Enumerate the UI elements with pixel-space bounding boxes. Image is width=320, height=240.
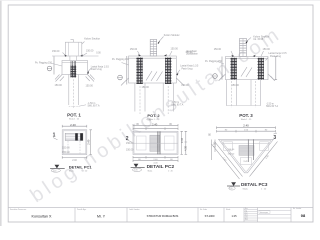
left dim vertical P3 bbox=[221, 57, 223, 80]
column top tick bbox=[71, 40, 74, 43]
slant dims PC3 left bbox=[212, 142, 243, 180]
svg-text:150.00: 150.00 bbox=[232, 84, 240, 87]
piles P3 bbox=[226, 80, 228, 106]
leader lantai kerja P3 bbox=[266, 58, 269, 61]
texts POT2 bbox=[112, 34, 199, 121]
svg-text:Pasir Urug: Pasir Urug bbox=[182, 67, 194, 70]
top dims PC2 bbox=[133, 124, 178, 126]
inner hatch diagonals P3 bbox=[241, 67, 252, 77]
svg-text:150.00: 150.00 bbox=[214, 48, 222, 51]
svg-text:1:25: 1:25 bbox=[231, 214, 237, 218]
svg-text:2: 2 bbox=[126, 136, 129, 142]
pile bottom P1 bbox=[69, 105, 79, 107]
base arrows P2 bbox=[138, 54, 167, 56]
svg-text:4.00: 4.00 bbox=[185, 146, 188, 151]
section symbol PC2 bbox=[131, 164, 145, 172]
svg-text:Lantai Kerja 1:3:5: Lantai Kerja 1:3:5 bbox=[91, 65, 110, 68]
svg-text:Kolom Struktur: Kolom Struktur bbox=[84, 37, 100, 40]
svg-text:Urug Pasir: Urug Pasir bbox=[186, 50, 197, 53]
texts PC3 bbox=[209, 124, 270, 191]
svg-text:Mr. Y: Mr. Y bbox=[97, 215, 106, 219]
svg-text:150.00: 150.00 bbox=[228, 153, 235, 155]
svg-text:Pemilik Bgn.: Pemilik Bgn. bbox=[77, 209, 87, 211]
svg-text:Skala: Skala bbox=[243, 189, 249, 191]
leader pagging P1 bbox=[51, 63, 63, 66]
svg-text:1 : 20: 1 : 20 bbox=[261, 189, 267, 191]
outer rect PC2 bbox=[133, 131, 178, 154]
svg-text:No. Kode: No. Kode bbox=[200, 209, 207, 211]
svg-text:POT. 2: POT. 2 bbox=[147, 113, 160, 118]
svg-text:Kolom Struktur: Kolom Struktur bbox=[164, 34, 180, 37]
svg-text:Judul Gambar: Judul Gambar bbox=[129, 208, 140, 211]
svg-text:-1.50 m: -1.50 m bbox=[171, 102, 179, 104]
top dims PC3 bbox=[217, 127, 276, 129]
leader kolom struktur P2 bbox=[159, 37, 164, 42]
svg-text:0.00: 0.00 bbox=[96, 53, 101, 55]
svg-text:1:20: 1:20 bbox=[229, 188, 233, 190]
svg-text:4.00: 4.00 bbox=[147, 120, 152, 122]
svg-text:-1.50 m: -1.50 m bbox=[88, 103, 96, 105]
rebar bundle P1 bbox=[71, 61, 76, 66]
svg-text:POT. 3: POT. 3 bbox=[239, 113, 253, 118]
base arrows P1 bbox=[65, 55, 83, 57]
svg-text:ST-1000: ST-1000 bbox=[205, 214, 215, 218]
svg-text:Skala 1 : 25: Skala 1 : 25 bbox=[241, 119, 252, 121]
section mark C P3 bbox=[213, 74, 218, 79]
cut flag 1 PC1 bbox=[53, 133, 58, 140]
rebar bundle P2 left bbox=[136, 58, 142, 85]
right dims PC2 bbox=[181, 131, 183, 154]
svg-text:150.00: 150.00 bbox=[126, 142, 134, 145]
watermark bbox=[26, 22, 285, 207]
top dim PC1 bbox=[62, 125, 87, 127]
svg-text:150.00: 150.00 bbox=[86, 85, 94, 88]
bottom dim PC1 bbox=[62, 156, 87, 158]
column dowels into cap P1 bbox=[69, 56, 71, 61]
svg-text:POT. 1: POT. 1 bbox=[67, 112, 81, 117]
svg-text:Chk: Chk bbox=[245, 217, 248, 219]
svg-text:150.00: 150.00 bbox=[263, 48, 271, 51]
note cell rows bbox=[258, 210, 292, 218]
svg-text:DETAIL PC1: DETAIL PC1 bbox=[69, 165, 93, 170]
svg-text:1:20: 1:20 bbox=[53, 170, 57, 172]
soil hatch right P1 bbox=[86, 75, 95, 82]
soil hatch right P3 bbox=[268, 74, 275, 81]
svg-text:150.00: 150.00 bbox=[171, 48, 179, 51]
svg-text:2.40: 2.40 bbox=[181, 138, 184, 143]
column P1 bbox=[65, 42, 82, 56]
svg-text:Ps. Pagging 150: Ps. Pagging 150 bbox=[205, 61, 223, 63]
svg-text:1 : 20: 1 : 20 bbox=[168, 170, 173, 172]
leader kolom struktur P1 bbox=[82, 42, 85, 45]
rebar bundle P3 left bbox=[231, 58, 237, 80]
svg-text:SWL 60 T.A: SWL 60 T.A bbox=[266, 105, 278, 108]
inner hatch diagonals P2 bbox=[146, 71, 163, 81]
hatched square PC2 bbox=[133, 132, 178, 155]
svg-text:150.00: 150.00 bbox=[55, 84, 63, 87]
soil hatch left P1 bbox=[55, 75, 64, 82]
svg-text:Skala: Skala bbox=[226, 209, 230, 211]
svg-text:SWL 60 T.A: SWL 60 T.A bbox=[171, 104, 183, 107]
cut flag 2 PC2 bbox=[126, 136, 132, 143]
pile bottom line P3 bbox=[226, 105, 261, 107]
right dim P3 bbox=[275, 57, 277, 80]
dim leaders 150 P2 bbox=[138, 51, 173, 56]
svg-text:Skala 1 : 25: Skala 1 : 25 bbox=[69, 119, 79, 121]
pile squares PC2 bbox=[137, 136, 147, 150]
svg-text:150.00: 150.00 bbox=[62, 146, 70, 149]
svg-text:150.00: 150.00 bbox=[181, 84, 189, 87]
right dim PC1 bbox=[90, 130, 92, 155]
svg-text:2.40: 2.40 bbox=[72, 160, 77, 162]
svg-text:Konsultan Perencana: Konsultan Perencana bbox=[10, 208, 26, 211]
revision mini table bbox=[244, 210, 258, 221]
left dim stack PC3 bbox=[211, 140, 213, 161]
svg-text:08: 08 bbox=[301, 213, 306, 218]
slant dims PC3 right bbox=[250, 142, 278, 177]
svg-text:150.00: 150.00 bbox=[142, 86, 150, 89]
svg-text:Uk. 15/15: Uk. 15/15 bbox=[253, 39, 264, 41]
dim leaders 150 P1 bbox=[63, 53, 88, 56]
svg-text:STRUKTUR RUMAH BOS: STRUKTUR RUMAH BOS bbox=[147, 214, 179, 218]
soil hatch left P2 bbox=[121, 78, 129, 86]
svg-text:15/15: 15/15 bbox=[243, 161, 249, 163]
svg-text:-1.50 m: -1.50 m bbox=[266, 104, 274, 106]
rebar bundle P3 right bbox=[258, 58, 264, 80]
svg-text:Dipadatkan: Dipadatkan bbox=[186, 52, 198, 55]
ground line P1 bbox=[82, 55, 99, 57]
bottom dims PC2 bbox=[133, 156, 178, 158]
section mark C P1 bbox=[47, 66, 52, 71]
texts PC1 bbox=[62, 123, 92, 173]
hatched square PC3 bbox=[239, 140, 254, 163]
svg-text:150.00: 150.00 bbox=[130, 48, 138, 51]
svg-text:150.00: 150.00 bbox=[228, 149, 235, 151]
svg-text:Pasir Urug: Pasir Urug bbox=[270, 55, 282, 58]
rebar bundle P2 right bbox=[165, 58, 171, 85]
leader pagging P2 bbox=[122, 63, 129, 66]
leader arrow P2 bbox=[158, 41, 161, 44]
section symbol PC3 bbox=[227, 182, 240, 190]
svg-text:DETAIL PC3: DETAIL PC3 bbox=[241, 182, 268, 187]
svg-text:2.40: 2.40 bbox=[152, 122, 158, 126]
svg-text:2.40: 2.40 bbox=[87, 139, 91, 145]
svg-text:Rev: Rev bbox=[245, 208, 248, 210]
svg-text:150.00: 150.00 bbox=[86, 49, 94, 52]
svg-text:1.20: 1.20 bbox=[214, 142, 216, 147]
svg-text:2.40: 2.40 bbox=[70, 123, 76, 127]
svg-text:Ps. Pagging 150: Ps. Pagging 150 bbox=[112, 59, 130, 61]
left dim vertical P2 bbox=[126, 56, 128, 85]
svg-text:150.00: 150.00 bbox=[52, 50, 60, 53]
section symbol PC1 bbox=[50, 165, 65, 173]
column ladder P2 bbox=[150, 40, 157, 57]
texts POT1 bbox=[35, 37, 110, 120]
hatched band PC1 bbox=[65, 133, 83, 140]
svg-text:Kolom Struktur: Kolom Struktur bbox=[253, 36, 269, 39]
svg-text:DETAIL PC2: DETAIL PC2 bbox=[147, 164, 175, 170]
texts PC2 bbox=[126, 120, 188, 173]
texts POT3 bbox=[186, 36, 287, 122]
cut flag 3 PC3 bbox=[273, 133, 277, 141]
column ladder P3 bbox=[240, 39, 247, 57]
pile squares PC3 bbox=[224, 142, 233, 151]
svg-text:1 : 20: 1 : 20 bbox=[83, 171, 88, 173]
left dim vertical P1 bbox=[53, 56, 55, 75]
svg-text:2.40: 2.40 bbox=[243, 124, 249, 128]
outer rect PC1 bbox=[62, 130, 87, 155]
base arrows P3 bbox=[232, 55, 256, 57]
leader lantai kerja P2 bbox=[177, 70, 180, 74]
cap P1 bbox=[62, 61, 88, 75]
pile P1 bbox=[68, 75, 70, 106]
svg-text:Ps. Pagging 150: Ps. Pagging 150 bbox=[35, 62, 53, 64]
svg-text:Konsultan X: Konsultan X bbox=[32, 215, 52, 219]
soil hatch left P3 bbox=[219, 74, 226, 81]
dim leaders 150 P3 bbox=[231, 51, 264, 56]
cap P2 bbox=[129, 56, 177, 83]
scanned page edge bbox=[0, 0, 2, 226]
dashed col lines PC1 bbox=[67, 141, 69, 154]
svg-text:Lantai Kerja 1:3:5: Lantai Kerja 1:3:5 bbox=[269, 52, 288, 55]
leader kolom struktur P3 bbox=[247, 38, 252, 42]
svg-text:150.00: 150.00 bbox=[62, 151, 70, 154]
top band PC3 bbox=[222, 143, 270, 145]
svg-text:Lantai Kerja 1:3:5: Lantai Kerja 1:3:5 bbox=[180, 65, 199, 68]
svg-text:No. Lembar: No. Lembar bbox=[293, 208, 302, 210]
cap P3 bbox=[226, 57, 269, 80]
leader arrow P3 bbox=[246, 40, 249, 43]
leader lantai kerja P1 bbox=[87, 69, 91, 73]
piles P2 bbox=[134, 83, 136, 112]
svg-text:SWL 60 T.A: SWL 60 T.A bbox=[88, 105, 100, 108]
leader pagging P3 bbox=[218, 62, 225, 65]
triangle PC3 bbox=[219, 139, 274, 173]
svg-text:1:20: 1:20 bbox=[134, 170, 138, 172]
soil hatch right P2 bbox=[176, 78, 184, 86]
svg-text:Pasir Urug: Pasir Urug bbox=[91, 68, 103, 71]
svg-text:150.00: 150.00 bbox=[126, 149, 134, 152]
svg-text:3: 3 bbox=[273, 135, 276, 141]
section mark C P2 bbox=[118, 75, 123, 80]
